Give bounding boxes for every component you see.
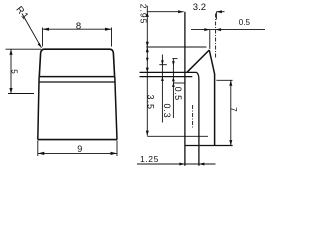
svg-text:2.95: 2.95 [139, 4, 149, 25]
svg-text:5: 5 [10, 69, 19, 74]
svg-text:0.5: 0.5 [239, 18, 251, 27]
svg-text:0.3: 0.3 [162, 104, 172, 119]
svg-text:9: 9 [77, 144, 82, 154]
svg-text:1.25: 1.25 [140, 154, 159, 164]
svg-text:8: 8 [76, 21, 81, 32]
svg-text:0.5: 0.5 [173, 87, 183, 101]
svg-text:3.2: 3.2 [193, 2, 206, 13]
svg-text:3.5: 3.5 [146, 95, 156, 111]
svg-text:7: 7 [229, 107, 238, 112]
